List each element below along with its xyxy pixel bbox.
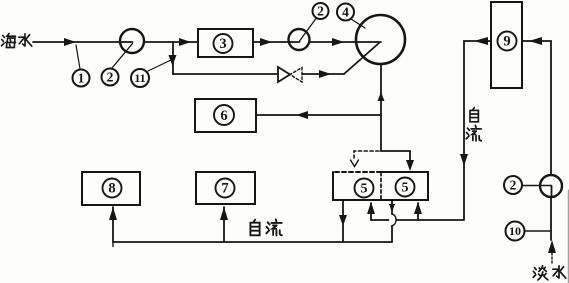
- svg-text:5: 5: [402, 181, 409, 196]
- wire up into left box5: [370, 203, 372, 220]
- arrow into box6: [296, 111, 308, 119]
- arrow into right box5: [406, 160, 414, 171]
- box 9: [491, 2, 522, 88]
- svg-text:4: 4: [342, 5, 349, 20]
- arrow up into right box5: [414, 202, 422, 214]
- box 3: [198, 29, 253, 57]
- circle label 2b: [313, 3, 329, 19]
- label 海水 (seawater): [2, 34, 16, 48]
- wire big circle down: [380, 64, 382, 151]
- wire riser to box8: [112, 207, 114, 242]
- arrow bypass right: [319, 70, 331, 78]
- svg-text:3: 3: [219, 36, 226, 52]
- arrow main line 4: [332, 38, 344, 46]
- svg-text:5: 5: [361, 182, 368, 197]
- arrow branch down: [169, 55, 177, 66]
- circle label 10: [506, 222, 525, 241]
- arrow gravity down: [460, 154, 468, 166]
- leader 11: [148, 60, 171, 71]
- label 自流 vertical: [470, 108, 478, 122]
- circled 5 left: [355, 179, 374, 198]
- box 6: [195, 99, 256, 132]
- leader 2a to pump P1: [112, 44, 133, 69]
- wire pump P3 to center: [551, 186, 553, 198]
- box 8: [82, 172, 140, 205]
- svg-text:2: 2: [107, 70, 114, 85]
- circled 3: [214, 34, 233, 53]
- wire dashed tee left half: [354, 151, 379, 158]
- circle label 4: [337, 4, 354, 21]
- arrow main line 3: [260, 38, 272, 46]
- arrow small up on downcomer: [378, 92, 385, 101]
- circle label 2a: [102, 69, 119, 86]
- arrow small down on 392: [389, 204, 395, 212]
- label 自流 horizontal: [250, 220, 259, 236]
- circled 6: [214, 105, 234, 125]
- circle label 1: [73, 70, 90, 87]
- arrow dashed into left box5: [351, 160, 359, 167]
- box 5 right: [381, 172, 428, 200]
- node corner stub: [112, 242, 114, 247]
- wire under box5 left down: [342, 200, 344, 242]
- label 淡水 (fresh water): [533, 266, 548, 280]
- scan edge artifact right: [567, 190, 569, 283]
- pump P3: [540, 175, 562, 197]
- leader 2b to pump P2: [300, 19, 317, 42]
- circle label 2c: [504, 176, 522, 194]
- svg-text:2: 2: [510, 178, 517, 193]
- divider dashed: [380, 173, 382, 201]
- wire main seawater line: [33, 41, 357, 43]
- wire riser to box7: [223, 207, 225, 242]
- valve V1: [278, 67, 290, 82]
- wire up into right box5: [417, 203, 419, 220]
- wire box9 left outlet: [371, 41, 491, 220]
- wire fresh water riser: [550, 41, 552, 240]
- circled 8: [103, 179, 122, 198]
- wire tee to boxes 5: [381, 150, 410, 152]
- circled 5 right: [396, 178, 415, 197]
- wire bypass line: [173, 73, 344, 75]
- svg-text:6: 6: [220, 108, 227, 124]
- arrow main line 1: [64, 38, 76, 46]
- arrow into box9: [529, 37, 542, 45]
- leader 4: [351, 19, 365, 28]
- wire box9 right inlet: [522, 40, 551, 42]
- arrow fresh water up: [548, 240, 556, 253]
- wire inside big circle horizontal: [356, 41, 381, 43]
- wire recycle diagonal into big circle: [344, 43, 379, 74]
- arrow main line 2: [179, 38, 191, 46]
- circled 9: [498, 32, 517, 51]
- arrow out of box9 left: [474, 37, 488, 45]
- wire bottom gravity line: [113, 241, 392, 243]
- box 5 left: [333, 172, 428, 200]
- leader 10: [525, 230, 551, 232]
- circled 7: [216, 179, 235, 198]
- svg-text:8: 8: [108, 181, 115, 197]
- wire box6 line: [256, 114, 381, 116]
- pump P1: [120, 29, 144, 53]
- svg-text:9: 9: [503, 34, 510, 50]
- leader 1: [76, 45, 80, 69]
- arrow up into left box5: [367, 202, 375, 214]
- svg-text:1: 1: [78, 71, 85, 86]
- svg-text:2: 2: [317, 4, 324, 19]
- wire solid drop right: [409, 151, 411, 160]
- circle label 11: [131, 69, 149, 87]
- svg-text:10: 10: [509, 224, 521, 238]
- arrow down on 343: [339, 215, 347, 226]
- svg-text:7: 7: [221, 181, 228, 197]
- arrow into box8: [109, 207, 117, 220]
- pump P2: [289, 29, 310, 50]
- leader 2c: [522, 185, 552, 187]
- flash chamber big circle: [356, 15, 405, 64]
- svg-text:11: 11: [134, 71, 145, 85]
- wire under box5 right down with hop: [391, 200, 393, 214]
- arrow into box7: [220, 207, 228, 220]
- box 7: [196, 172, 255, 204]
- node branch tee: [172, 42, 174, 74]
